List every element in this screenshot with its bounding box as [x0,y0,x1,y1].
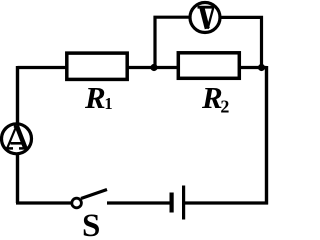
switch S blade [81,190,107,199]
resistor R1 [67,53,127,79]
wire: bottom wire middle segment (switch to battery left plate) [107,201,172,204]
wire: voltmeter branch right horizontal + vertical down to node [221,17,262,67]
voltmeter letter V (drawn) [198,7,215,29]
wire: bottom wire right segment (battery right plate to right corner) [184,201,268,204]
svg-text:2: 2 [220,97,229,117]
ammeter A1 circle [2,124,32,154]
svg-text:1: 1 [104,94,112,113]
wire: left vertical wire [16,66,19,203]
resistor R2 [178,53,239,79]
wire: bottom wire left segment (to switch) [16,201,71,204]
node B: junction dot right of R2 [258,64,265,71]
battery positive plate (long thin) [182,186,185,220]
svg-text:S: S [82,208,100,238]
svg-text:R: R [84,80,106,115]
ammeter letter A (drawn) [5,127,29,149]
wire: voltmeter branch left vertical + top horizontal to V [155,17,189,67]
voltmeter U1 circle [190,3,220,33]
wire: top main wire from left corner through R1,R2 to right corner [18,66,267,69]
node A: junction dot left of R2 [150,64,157,71]
wire: right vertical wire [265,66,268,205]
switch S pivot circle [72,198,82,208]
battery negative plate (short thick) [170,193,174,213]
